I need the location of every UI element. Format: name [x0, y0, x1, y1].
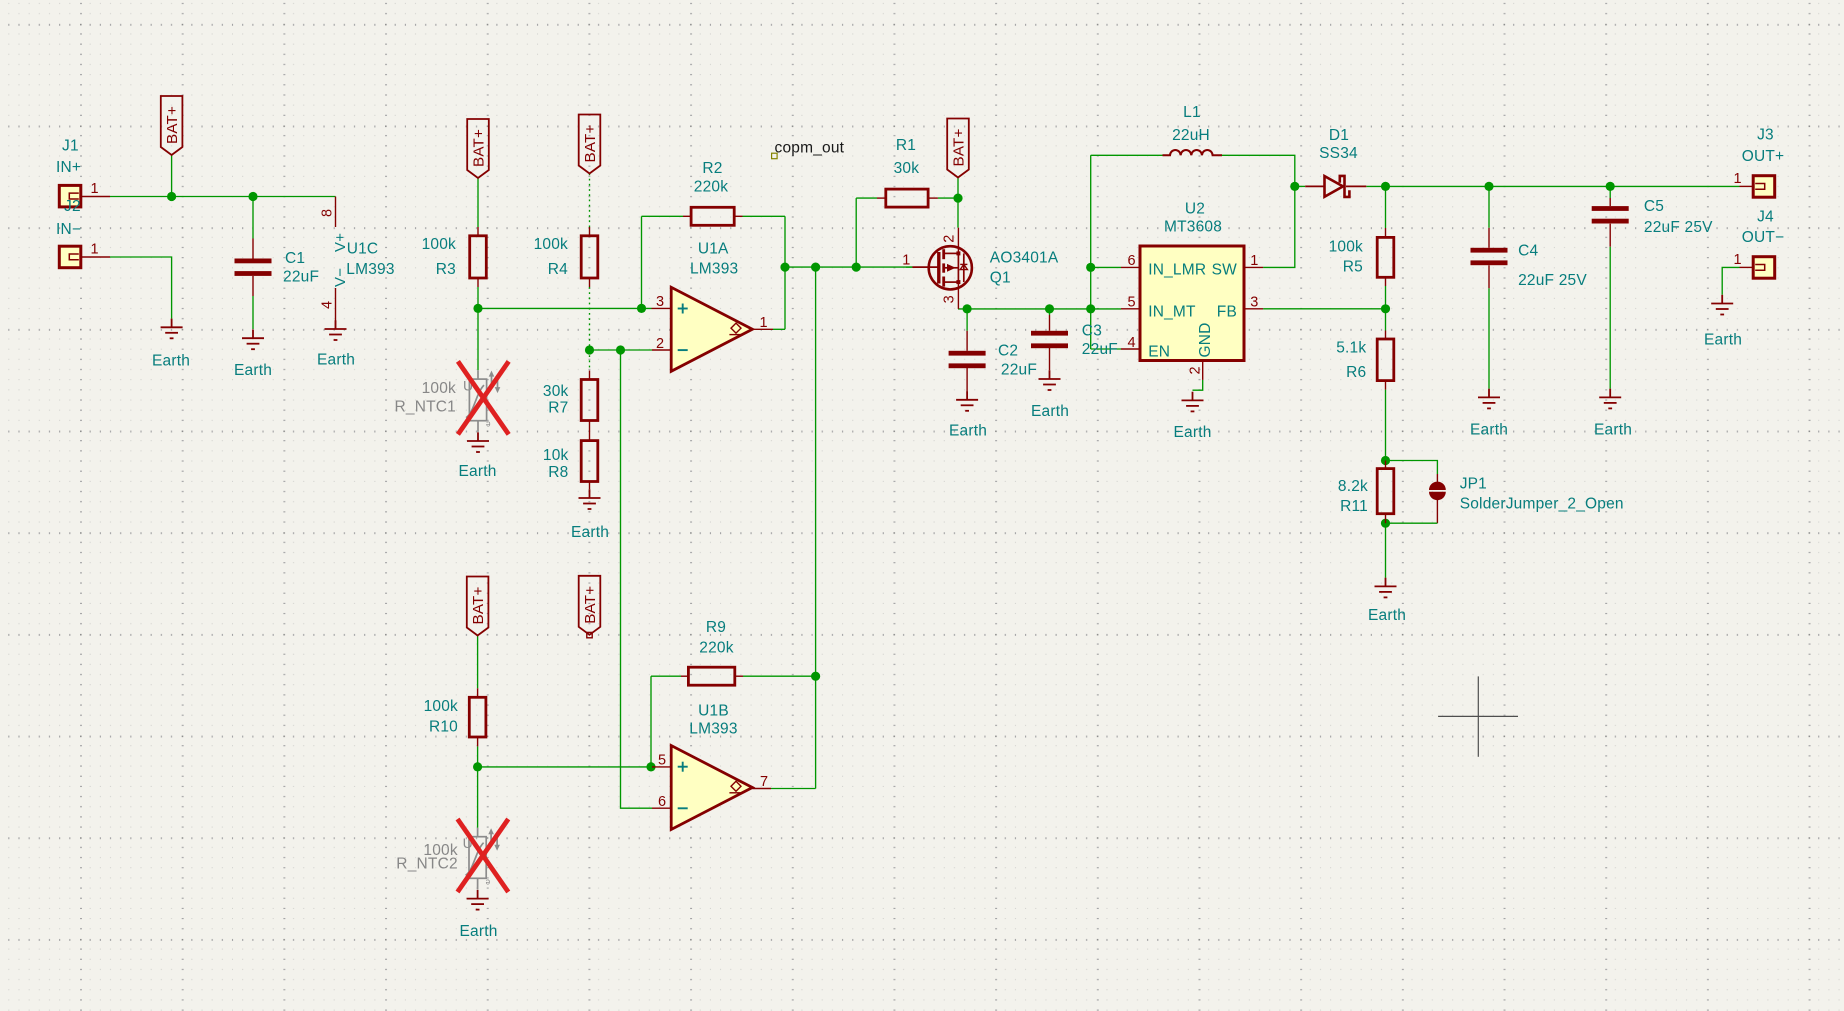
- wire R11 bottom junction to earth: [1385, 523, 1387, 578]
- label Earth R8: [571, 524, 609, 541]
- power symbol BAT+ unconnected: [579, 576, 601, 638]
- junction C2 branch: [963, 304, 972, 313]
- svg-text:LM393: LM393: [346, 261, 394, 278]
- label 220k R2: [694, 178, 728, 195]
- wire R4 bottom dashed: [589, 287, 591, 350]
- svg-text:JP1: JP1: [1460, 475, 1487, 492]
- junction R9 right U1B out: [811, 672, 820, 681]
- wire U1A pin2 to U1B pin6 vertical: [621, 350, 653, 808]
- connector J2: [59, 246, 81, 268]
- wire C4 bottom lead: [1488, 288, 1490, 389]
- junction node B R10: [473, 762, 482, 771]
- svg-text:C2: C2: [998, 342, 1018, 359]
- pin name V+ of U1C: [332, 233, 349, 252]
- connector J1: [59, 185, 81, 207]
- pin 7 of U1B output: [752, 788, 771, 790]
- wire BAT+ to R10: [477, 636, 479, 689]
- svg-text:R1: R1: [896, 137, 916, 154]
- wire C2 top lead: [966, 309, 968, 331]
- wire R2 right lead: [743, 215, 786, 217]
- pin R5 top: [1385, 228, 1387, 237]
- svg-text:100k: 100k: [1329, 239, 1363, 256]
- label IN+: [56, 159, 81, 176]
- label R_NTC2 gray: [396, 856, 458, 873]
- svg-text:SolderJumper_2_Open: SolderJumper_2_Open: [1460, 495, 1624, 512]
- pin R7 bottom: [589, 421, 591, 441]
- capacitor C1: [235, 259, 272, 276]
- junction pin2 branch: [616, 345, 625, 354]
- svg-text:Earth: Earth: [1704, 331, 1742, 348]
- ground R8: [579, 489, 601, 509]
- power symbol BAT+ above R10: [467, 577, 489, 636]
- label Earth NTC1: [458, 463, 496, 480]
- pin R8 bottom: [589, 482, 591, 490]
- resistor R6: [1377, 339, 1394, 381]
- wire JP1 bottom branch: [1386, 522, 1438, 524]
- svg-text:R2: R2: [702, 160, 722, 177]
- svg-text:Earth: Earth: [1368, 607, 1406, 624]
- wire FB horizontal: [1263, 308, 1385, 310]
- ground J2: [161, 319, 183, 339]
- label Earth C5: [1594, 422, 1632, 439]
- wire R3 bottom to node A: [477, 287, 479, 308]
- pin name GND rotated: [1197, 322, 1214, 357]
- net label copm_out: [772, 140, 845, 159]
- svg-text:220k: 220k: [694, 178, 728, 195]
- label J4: [1757, 208, 1774, 225]
- wire R2 right vertical to U1A out: [784, 216, 786, 329]
- crosshair cursor: [1438, 676, 1518, 756]
- label Earth C3: [1031, 403, 1069, 420]
- svg-text:C5: C5: [1644, 198, 1664, 215]
- pin number 2 U1A: [656, 336, 664, 352]
- svg-text:Earth: Earth: [458, 463, 496, 480]
- svg-text:1: 1: [760, 315, 768, 331]
- svg-text:22uF: 22uF: [283, 269, 319, 286]
- svg-text:L1: L1: [1183, 104, 1201, 121]
- wire JP1 top branch: [1386, 461, 1438, 475]
- pin R10 top: [477, 688, 479, 697]
- wire R2 left lead: [642, 215, 684, 217]
- junction comp_out to R1 branch: [852, 263, 861, 272]
- svg-text:22uH: 22uH: [1172, 127, 1210, 144]
- pin 1 SW of U2: [1244, 266, 1263, 268]
- wire C1 top lead: [252, 197, 254, 239]
- wire R2 left vertical: [641, 216, 643, 308]
- svg-text:3: 3: [942, 295, 958, 303]
- pin 3 of U1A: [652, 307, 672, 309]
- svg-text:BAT+: BAT+: [582, 124, 599, 162]
- svg-text:BAT+: BAT+: [471, 129, 488, 167]
- junction C1 at IN+ wire: [248, 192, 257, 201]
- pin R9 left: [681, 675, 688, 677]
- pin 1 of J4: [1740, 266, 1754, 268]
- ground C3: [1039, 370, 1061, 390]
- pin 4 V- of U1C: [335, 288, 337, 329]
- svg-text:8.2k: 8.2k: [1338, 478, 1368, 495]
- inductor L1: [1163, 150, 1223, 155]
- label R9: [706, 619, 726, 636]
- pin number 1 J2: [91, 242, 99, 258]
- svg-text:220k: 220k: [699, 639, 733, 656]
- junction IN_LMR branch: [1086, 263, 1095, 272]
- junction SW L1 D1 node: [1290, 182, 1299, 191]
- svg-text:R4: R4: [548, 261, 568, 278]
- resistor R1: [886, 189, 928, 207]
- pin number 3 Q1: [942, 295, 958, 303]
- pin number 4 U1C: [320, 301, 336, 309]
- svg-text:1: 1: [1734, 252, 1742, 268]
- ground U1C: [325, 320, 347, 340]
- pin number 3 U2: [1250, 295, 1258, 311]
- pin R5 bottom: [1385, 277, 1387, 286]
- svg-text:D1: D1: [1329, 127, 1349, 144]
- svg-text:BAT+: BAT+: [951, 128, 968, 166]
- thermistor R_NTC2: [463, 828, 500, 890]
- junction R2 left at pin3 wire: [637, 304, 646, 313]
- capacitor C2: [949, 351, 986, 368]
- label J1: [62, 138, 79, 155]
- svg-text:R5: R5: [1343, 258, 1363, 275]
- wire C5 top lead: [1609, 186, 1611, 198]
- power symbol BAT+ near J1: [161, 96, 183, 155]
- pin R4 bottom: [589, 278, 591, 287]
- svg-text:SS34: SS34: [1319, 145, 1358, 162]
- label 100k NTC2 gray: [423, 842, 457, 859]
- wire R1 branch vertical: [855, 198, 857, 267]
- pin name IN_MT: [1148, 304, 1196, 321]
- pin number 1 J1: [91, 181, 99, 197]
- pin 2 source of Q1: [957, 228, 959, 254]
- pin 6 of U1B: [652, 807, 671, 809]
- svg-text:C1: C1: [285, 250, 305, 267]
- pin R10 bottom: [477, 737, 479, 746]
- svg-text:R7: R7: [548, 399, 568, 416]
- wire C3 top lead: [1049, 309, 1051, 315]
- svg-text:1: 1: [1250, 253, 1258, 269]
- svg-text:4: 4: [320, 301, 336, 309]
- wire R5 bottom to R6 top: [1385, 286, 1387, 331]
- svg-text:U1A: U1A: [698, 241, 729, 258]
- svg-text:7: 7: [760, 774, 768, 790]
- svg-text:OUT+: OUT+: [1742, 148, 1785, 165]
- wire R9 left lead: [651, 675, 681, 677]
- pin number 1 U2: [1250, 253, 1258, 269]
- label Earth C2: [949, 423, 987, 440]
- ground R_NTC2: [467, 890, 489, 910]
- label Earth J2: [152, 353, 190, 370]
- wire BAT+ to Q1 source: [957, 178, 959, 228]
- wire BAT+ dashed to R4: [589, 174, 591, 228]
- pin number 3 U1A: [656, 294, 664, 310]
- wire node A down to R_NTC1: [477, 308, 479, 370]
- label R10: [429, 718, 458, 735]
- label 100k R3: [422, 236, 456, 253]
- wire top to L1: [1091, 154, 1163, 156]
- junction C3 branch: [1045, 304, 1054, 313]
- pin 5 of U1B: [652, 766, 671, 768]
- pin number 2 U2: [1188, 366, 1204, 374]
- svg-text:22uF 25V: 22uF 25V: [1518, 272, 1587, 289]
- wire IN+ bus J1 to U1C V+: [110, 196, 336, 198]
- svg-text:100k: 100k: [424, 698, 458, 715]
- label OUT+: [1742, 148, 1785, 165]
- ground R_NTC1: [467, 432, 489, 452]
- junction R1 BAT+ Q1 source: [953, 194, 962, 203]
- label C4: [1518, 243, 1538, 260]
- label 22uF C3: [1082, 341, 1118, 358]
- pin 5 IN_MT of U2: [1121, 308, 1140, 310]
- junction R4 bottom node: [585, 345, 594, 354]
- svg-text:Earth: Earth: [1173, 424, 1211, 441]
- wire U1A output: [773, 328, 785, 330]
- label 220k R9: [699, 639, 733, 656]
- label L1: [1183, 104, 1201, 121]
- pin 1 of U1A output: [752, 328, 773, 330]
- wire L1 to SW corner: [1222, 155, 1295, 186]
- wire U1B output: [771, 788, 816, 790]
- svg-text:R_NTC2: R_NTC2: [396, 856, 458, 873]
- label Earth C4: [1470, 422, 1508, 439]
- svg-text:1: 1: [1734, 171, 1742, 187]
- pin C5 top: [1609, 198, 1611, 206]
- svg-text:5.1k: 5.1k: [1336, 339, 1366, 356]
- label J2: [64, 198, 81, 215]
- label Earth U1C: [317, 352, 355, 369]
- pin 4 EN of U2: [1121, 348, 1140, 350]
- pin R4 top: [589, 227, 591, 236]
- label R_NTC1 gray: [395, 399, 457, 416]
- svg-text:J1: J1: [62, 138, 79, 155]
- capacitor C3: [1031, 331, 1068, 348]
- svg-text:J4: J4: [1757, 208, 1774, 225]
- pin 2 of JP1: [1436, 499, 1438, 523]
- resistor R11: [1377, 469, 1394, 514]
- wire U1B out vertical: [815, 676, 817, 788]
- junction VOUT R5 branch: [1381, 182, 1390, 191]
- svg-text:J3: J3: [1757, 127, 1774, 144]
- resistor R3: [470, 236, 487, 278]
- svg-text:30k: 30k: [543, 383, 569, 400]
- svg-text:100k: 100k: [422, 236, 456, 253]
- solder jumper JP1 pads: [1429, 482, 1446, 501]
- ground C1: [242, 330, 264, 350]
- svg-text:OUT−: OUT−: [1742, 229, 1785, 246]
- junction R9 left at pin5: [646, 762, 655, 771]
- svg-text:1: 1: [91, 242, 99, 258]
- wire comp_out horizontal: [785, 266, 912, 268]
- label 30k R1: [894, 160, 920, 177]
- svg-text:2: 2: [942, 235, 958, 243]
- svg-text:10k: 10k: [543, 447, 569, 464]
- label Q1: [990, 270, 1011, 287]
- wire node to R7 dashed: [589, 350, 591, 371]
- label U1A: [698, 241, 729, 258]
- pin number 7 U1B: [760, 774, 768, 790]
- junction comp_out to U1B branch: [811, 263, 820, 272]
- label 100k R4: [534, 236, 568, 253]
- svg-text:U2: U2: [1185, 201, 1205, 218]
- label U2: [1185, 201, 1205, 218]
- svg-text:R6: R6: [1346, 364, 1366, 381]
- wire comp_out to U1B long vertical: [815, 267, 817, 676]
- ground J4: [1711, 295, 1733, 315]
- junction EN branch: [1086, 304, 1095, 313]
- wire U2 GND jog: [1193, 380, 1203, 390]
- label U1B: [698, 702, 729, 719]
- svg-text:6: 6: [1128, 253, 1136, 269]
- pin 1 of J2: [81, 256, 110, 258]
- svg-text:22uF: 22uF: [1082, 341, 1118, 358]
- svg-text:Earth: Earth: [1470, 422, 1508, 439]
- wire EN horizontal: [1091, 348, 1121, 350]
- svg-text:AO3401A: AO3401A: [990, 249, 1059, 266]
- thermistor R_NTC1: [463, 370, 500, 432]
- pin 1 gate of Q1: [912, 266, 938, 268]
- label 22uH L1: [1172, 127, 1210, 144]
- pin C1 top: [252, 239, 254, 259]
- svg-text:1: 1: [91, 181, 99, 197]
- pin C2 bottom: [966, 368, 968, 391]
- pin R6 top: [1385, 331, 1387, 340]
- pin number 1 J4: [1734, 252, 1742, 268]
- op-amp U1B LM393: [671, 746, 752, 830]
- label C5: [1644, 198, 1664, 215]
- label Earth R11: [1368, 607, 1406, 624]
- label 8.2k R11: [1338, 478, 1368, 495]
- svg-text:100k: 100k: [534, 236, 568, 253]
- svg-text:1: 1: [902, 253, 910, 269]
- label R5: [1343, 258, 1363, 275]
- junction node A R3: [473, 304, 482, 313]
- svg-text:2: 2: [656, 336, 664, 352]
- svg-text:5: 5: [658, 753, 666, 769]
- label Earth J4: [1704, 331, 1742, 348]
- svg-text:IN−: IN−: [56, 221, 81, 238]
- capacitor C4: [1471, 248, 1508, 265]
- wire J2 to Earth: [110, 257, 172, 319]
- svg-text:22uF 25V: 22uF 25V: [1644, 219, 1713, 236]
- label Earth U2: [1173, 424, 1211, 441]
- label IN-: [56, 221, 81, 238]
- svg-text:R8: R8: [548, 464, 568, 481]
- svg-text:R10: R10: [429, 718, 458, 735]
- op-amp U1A LM393: [671, 287, 752, 371]
- label Earth C1: [234, 362, 272, 379]
- label LM393 U1C: [346, 261, 394, 278]
- pin R7 top: [589, 371, 591, 380]
- wire IN_LMR vertical: [1090, 155, 1092, 349]
- label SS34: [1319, 145, 1358, 162]
- svg-text:EN: EN: [1148, 344, 1170, 361]
- resistor R7: [581, 380, 598, 421]
- label 22uF C2: [1001, 362, 1037, 379]
- svg-text:IN_MT: IN_MT: [1148, 304, 1196, 321]
- svg-text:C3: C3: [1082, 322, 1102, 339]
- svg-text:IN_LMR: IN_LMR: [1148, 262, 1206, 279]
- pin R11 bottom: [1385, 514, 1387, 524]
- red X over R_NTC2: [459, 821, 507, 890]
- pin R2 left: [683, 215, 691, 217]
- svg-text:6: 6: [658, 794, 666, 810]
- label C1: [285, 250, 305, 267]
- svg-text:SW: SW: [1212, 262, 1238, 279]
- ground C2: [956, 391, 978, 411]
- resistor R9: [688, 667, 734, 685]
- pin R2 right: [734, 215, 742, 217]
- svg-text:100k: 100k: [422, 380, 456, 397]
- connector J4: [1753, 257, 1775, 279]
- svg-text:C4: C4: [1518, 243, 1538, 260]
- svg-text:R11: R11: [1340, 498, 1368, 515]
- pin C3 bottom: [1049, 348, 1051, 371]
- resistor R8: [581, 441, 598, 482]
- ground R11: [1375, 578, 1397, 598]
- pin 2 GND of U2: [1202, 361, 1204, 380]
- svg-text:LM393: LM393: [690, 260, 738, 277]
- label OUT-: [1742, 229, 1785, 246]
- label MT3608: [1164, 219, 1222, 236]
- wire R9 right lead: [743, 675, 816, 677]
- svg-text:Earth: Earth: [234, 362, 272, 379]
- label R1: [896, 137, 916, 154]
- label R7: [548, 399, 568, 416]
- label 22uF 25V C5: [1644, 219, 1713, 236]
- pin name SW: [1212, 262, 1238, 279]
- pin R9 right: [735, 675, 743, 677]
- pin C2 top: [966, 331, 968, 351]
- junction comp_out node: [780, 263, 789, 272]
- svg-text:copm_out: copm_out: [775, 140, 845, 157]
- pin number 1 Q1: [902, 253, 910, 269]
- pin R1 left: [877, 197, 886, 199]
- pin R6 bottom: [1385, 381, 1387, 390]
- junction R11 bottom JP1: [1381, 519, 1390, 528]
- svg-text:30k: 30k: [894, 160, 920, 177]
- wire node A to U1A pin3: [478, 307, 652, 309]
- wire R1 left lead: [856, 197, 877, 199]
- label 22uF C1: [283, 269, 319, 286]
- resistor R5: [1377, 237, 1394, 277]
- label 100k R10: [424, 698, 458, 715]
- label C3: [1082, 322, 1102, 339]
- svg-text:3: 3: [656, 294, 664, 310]
- svg-text:Earth: Earth: [949, 423, 987, 440]
- junction VOUT C5 branch: [1606, 182, 1615, 191]
- svg-text:BAT+: BAT+: [470, 586, 487, 624]
- wire J4 to earth: [1722, 267, 1739, 294]
- svg-text:LM393: LM393: [689, 721, 737, 738]
- pin C4 top: [1488, 228, 1490, 248]
- label R2: [702, 160, 722, 177]
- pin number 4 U2: [1128, 335, 1136, 351]
- power symbol BAT+ above Q1: [947, 119, 969, 178]
- pin 3 FB of U2: [1244, 308, 1263, 310]
- pin number 1 U1A: [760, 315, 768, 331]
- pin C3 top: [1049, 315, 1051, 331]
- wire R5 top lead: [1385, 186, 1387, 228]
- wire BAT+ flag1 stem: [171, 155, 173, 197]
- svg-text:2: 2: [1188, 366, 1204, 374]
- svg-text:ₔ: ₔ: [486, 415, 491, 429]
- pin C4 bottom: [1488, 265, 1490, 288]
- label J3: [1757, 127, 1774, 144]
- wire SW node to D1 anode: [1295, 185, 1305, 187]
- pin 6 IN_LMR of U2: [1121, 266, 1140, 268]
- svg-text:22uF: 22uF: [1001, 362, 1037, 379]
- transistor Q1 AO3401A: [929, 246, 972, 289]
- label 30k R7: [543, 383, 569, 400]
